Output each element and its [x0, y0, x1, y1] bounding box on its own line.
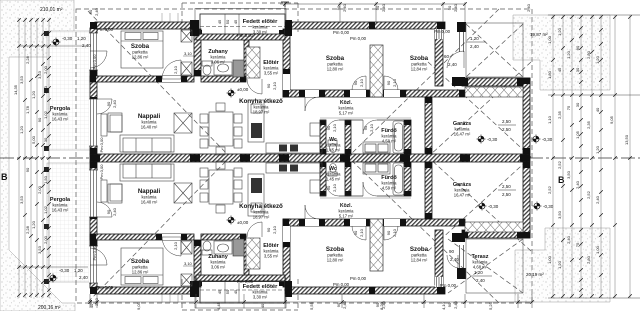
door szoba2 top unit — [352, 76, 366, 90]
svg-text:2,10: 2,10 — [272, 225, 277, 234]
bath block top wall lines — [320, 118, 411, 198]
svg-text:Pm 0,00: Pm 0,00 — [333, 282, 350, 287]
door SE entry bottom — [447, 255, 458, 268]
svg-text:1,10: 1,10 — [547, 115, 552, 124]
svg-text:2,52: 2,52 — [557, 160, 562, 169]
wall wc right wall bottom unit — [345, 162, 351, 196]
room label zuhany top unit — [208, 49, 228, 65]
svg-text:13,50: 13,50 — [624, 134, 629, 145]
armchair nappali top unit — [108, 113, 122, 132]
wall end caps — [90, 22, 530, 294]
svg-text:5,55: 5,55 — [309, 301, 314, 310]
Pm rotated window labels — [92, 54, 104, 261]
svg-text:75: 75 — [566, 105, 571, 110]
sofa nappali bottom unit — [120, 164, 174, 181]
svg-text:2,35: 2,35 — [586, 120, 591, 129]
level marker garage bottom L — [477, 201, 486, 210]
svg-text:2,28: 2,28 — [25, 55, 30, 64]
door wc bottom unit — [326, 183, 339, 196]
svg-text:45: 45 — [233, 19, 238, 24]
svg-text:90: 90 — [575, 45, 580, 50]
svg-text:Pm 0,00: Pm 0,00 — [92, 54, 97, 70]
wall szoba3 east wall top unit — [435, 31, 443, 86]
room label szoba3 top unit — [410, 55, 429, 72]
wall zuhany right wall bottom unit — [244, 240, 249, 280]
svg-text:3,30 m²: 3,30 m² — [253, 30, 268, 35]
svg-text:90: 90 — [336, 302, 341, 307]
radiator nappali top unit — [101, 114, 107, 136]
room label garazs bottom unit — [453, 182, 471, 198]
kitchen counter top unit — [248, 100, 322, 153]
svg-text:16,40 m²: 16,40 m² — [141, 200, 158, 205]
svg-text:1,20: 1,20 — [470, 36, 479, 41]
svg-text:±0,00: ±0,00 — [237, 220, 249, 225]
room label kozl bottom unit — [339, 203, 355, 219]
svg-text:18,97 m²: 18,97 m² — [253, 215, 270, 220]
door szoba1 to nappali bottom unit — [162, 237, 181, 256]
svg-text:3,10: 3,10 — [184, 51, 193, 56]
room label konyha top unit — [239, 98, 283, 115]
svg-text:3,53: 3,53 — [37, 70, 42, 79]
svg-text:2,10: 2,10 — [359, 228, 364, 237]
wall middle wall top unit — [283, 90, 465, 97]
svg-text:Pm 0,00: Pm 0,00 — [92, 245, 97, 261]
wall wc right wall top unit — [345, 120, 351, 154]
porch fedett eloter top — [195, 9, 286, 37]
wall eloter right wall bottom unit — [283, 219, 290, 287]
furdo fixtures top unit — [363, 121, 404, 153]
svg-text:Pm 0,00: Pm 0,00 — [440, 283, 457, 288]
svg-text:90: 90 — [353, 80, 358, 85]
door kozl bottom unit — [305, 205, 319, 219]
svg-text:2,10: 2,10 — [369, 123, 374, 132]
svg-text:45: 45 — [233, 289, 238, 294]
roof outline dashed — [76, 9, 532, 303]
svg-text:2,10: 2,10 — [332, 123, 337, 132]
svg-text:90: 90 — [447, 5, 452, 10]
svg-text:90: 90 — [266, 83, 271, 88]
door kozl top unit — [305, 97, 319, 111]
top dimension ticks — [283, 2, 467, 6]
svg-text:90: 90 — [386, 230, 391, 235]
room label nappali top unit — [138, 113, 161, 130]
svg-text:45: 45 — [557, 67, 562, 72]
svg-text:90: 90 — [88, 9, 93, 14]
wall szoba1 bottom wall top unit — [90, 76, 194, 82]
ground texture top-left — [0, 0, 75, 311]
furdo fixtures bottom unit — [363, 163, 404, 195]
porch fedett eloter bottom — [195, 278, 286, 308]
svg-text:Pm 0,00: Pm 0,00 — [99, 137, 104, 153]
porch piers — [190, 20, 292, 297]
svg-text:50: 50 — [225, 19, 230, 24]
svg-text:12,84 m²: 12,84 m² — [411, 67, 428, 72]
section marker B left — [1, 172, 8, 182]
party wall blocks — [90, 155, 530, 162]
svg-text:90: 90 — [266, 227, 271, 232]
svg-text:2,10: 2,10 — [332, 183, 337, 192]
svg-text:90: 90 — [25, 167, 30, 172]
room label wc top unit — [326, 137, 342, 153]
ground area label 19,87 m2 — [530, 32, 548, 37]
svg-text:12,80 m²: 12,80 m² — [327, 67, 344, 72]
svg-text:3,53: 3,53 — [19, 75, 24, 84]
dimension ticks right — [551, 15, 632, 298]
svg-text:30: 30 — [575, 67, 580, 72]
NE thin wall top — [452, 22, 466, 86]
wall eloter right wall top unit — [283, 29, 290, 97]
section marker B right — [558, 175, 565, 185]
room label eloter top unit — [263, 60, 279, 76]
svg-text:2,40: 2,40 — [526, 3, 531, 12]
wall zuhany right wall top unit — [244, 36, 249, 76]
wall middle wall bottom unit — [283, 219, 465, 226]
room label nappali bottom unit — [138, 188, 161, 205]
tv cabinet top unit — [174, 113, 192, 133]
svg-text:90: 90 — [106, 101, 111, 106]
svg-text:2,40: 2,40 — [448, 62, 457, 67]
porch step hatch bottom — [196, 275, 285, 281]
svg-text:210,01 m²: 210,01 m² — [40, 7, 63, 13]
kitchen end unit top unit — [310, 123, 320, 136]
bottom dimension ticks — [88, 300, 534, 304]
svg-text:2,40: 2,40 — [94, 7, 99, 16]
room label szoba1 top unit — [131, 43, 150, 60]
room label kozl top unit — [339, 100, 355, 116]
svg-text:Pm 0,00: Pm 0,00 — [434, 29, 451, 34]
svg-text:2,40: 2,40 — [575, 180, 580, 189]
dimension labels left — [13, 55, 48, 254]
svg-text:1,20: 1,20 — [77, 36, 86, 41]
wall furdo right wall bottom unit — [404, 162, 411, 196]
door furdo bottom unit — [363, 182, 377, 196]
svg-text:16,43 m²: 16,43 m² — [52, 208, 69, 213]
wall garage right wall top unit — [523, 78, 530, 154]
svg-text:-0,30: -0,30 — [488, 204, 499, 209]
room label fedett eloter bottom — [243, 284, 279, 300]
door furdo top unit — [363, 120, 377, 134]
svg-text:-0,30: -0,30 — [59, 268, 70, 273]
door szoba3 bottom unit — [384, 226, 398, 240]
wall top wall left bottom unit — [95, 287, 196, 294]
svg-text:Pm 0,00: Pm 0,00 — [237, 33, 254, 38]
svg-text:2,40: 2,40 — [453, 300, 458, 309]
svg-text:1,78: 1,78 — [25, 105, 30, 114]
pergola deck top — [47, 31, 91, 150]
wall szoba3 east wall bottom unit — [435, 230, 443, 285]
wc fixture bottom unit — [328, 164, 337, 177]
svg-text:1,45 m²: 1,45 m² — [326, 177, 341, 182]
room label zuhany bottom unit — [208, 254, 228, 270]
wall top wall right top unit — [285, 22, 445, 29]
svg-text:3,50: 3,50 — [557, 210, 562, 219]
garage lintel truss bottom — [465, 222, 523, 232]
wall top wall right bottom unit — [285, 287, 445, 294]
svg-text:2,40: 2,40 — [476, 278, 485, 283]
level texts kitchen — [237, 87, 249, 225]
level texts NE — [444, 36, 486, 67]
wc fixture top unit — [328, 140, 337, 153]
wall garage right wall bottom unit — [523, 162, 530, 238]
svg-text:3,53: 3,53 — [37, 245, 42, 254]
svg-text:2,40: 2,40 — [566, 235, 571, 244]
svg-text:3,06 m²: 3,06 m² — [211, 265, 226, 270]
svg-text:5,25: 5,25 — [488, 301, 493, 310]
svg-text:2,28: 2,28 — [25, 225, 30, 234]
porch roof dashed outline top — [182, 3, 298, 310]
kitchen end unit bottom unit — [310, 180, 320, 193]
svg-text:2,40: 2,40 — [595, 195, 600, 204]
svg-text:Pm 0,00: Pm 0,00 — [99, 164, 104, 180]
svg-text:1,02: 1,02 — [43, 205, 48, 214]
level texts garage — [487, 119, 554, 209]
room label szoba1 bottom unit — [131, 258, 150, 275]
dimension ticks left — [17, 18, 51, 297]
terasz slab outline — [466, 239, 523, 293]
svg-text:1,20: 1,20 — [474, 270, 483, 275]
svg-text:2,52: 2,52 — [586, 190, 591, 199]
svg-text:1,00: 1,00 — [595, 245, 600, 254]
level marker garage top R — [531, 134, 540, 143]
room label szoba3 bottom unit — [410, 246, 429, 263]
svg-text:3,10: 3,10 — [184, 261, 193, 266]
porch step hatch top — [196, 34, 285, 40]
svg-text:2,40: 2,40 — [94, 297, 99, 306]
svg-text:1,20: 1,20 — [557, 260, 562, 269]
svg-text:1,45 m²: 1,45 m² — [326, 148, 341, 153]
shaft truss szoba divider top — [370, 45, 383, 97]
svg-text:2,40: 2,40 — [450, 257, 459, 262]
pergola deck bottom — [47, 163, 91, 282]
room label terasz — [471, 254, 488, 270]
door szoba1 pergola top unit — [90, 51, 107, 68]
room label szoba2 bottom unit — [326, 246, 345, 263]
svg-text:45: 45 — [217, 19, 222, 24]
svg-text:2,50: 2,50 — [502, 119, 511, 124]
level marker garage bottom R — [532, 201, 541, 210]
svg-text:Pm 0,00: Pm 0,00 — [97, 285, 114, 290]
Pm texts top — [97, 27, 457, 290]
ground texture bottom-right — [515, 228, 610, 302]
svg-text:1,00: 1,00 — [547, 255, 552, 264]
svg-text:90: 90 — [106, 209, 111, 214]
door szoba1 to nappali top unit — [162, 60, 181, 79]
svg-text:2,50: 2,50 — [502, 184, 511, 189]
bottom dim labels — [89, 301, 493, 310]
room label pergola bottom unit — [50, 197, 71, 213]
room label fedett eloter top unit — [243, 19, 279, 35]
svg-text:90: 90 — [449, 249, 455, 254]
svg-text:2,00: 2,00 — [37, 185, 42, 194]
svg-text:1,20: 1,20 — [31, 220, 36, 229]
svg-text:2,52: 2,52 — [547, 185, 552, 194]
section tick T top — [281, 2, 289, 7]
svg-text:1,50: 1,50 — [43, 175, 48, 184]
kitchen counter bottom unit — [248, 163, 322, 216]
svg-text:1,20: 1,20 — [31, 90, 36, 99]
svg-text:16,47 m²: 16,47 m² — [454, 132, 471, 137]
svg-text:2,40: 2,40 — [453, 3, 458, 12]
svg-text:40: 40 — [595, 107, 600, 112]
svg-text:90: 90 — [363, 125, 368, 130]
svg-text:-0,30: -0,30 — [543, 204, 554, 209]
svg-text:19,87 m²: 19,87 m² — [530, 32, 548, 37]
svg-text:2,40: 2,40 — [381, 3, 386, 12]
svg-text:-0,30: -0,30 — [62, 36, 73, 41]
svg-text:3,53: 3,53 — [19, 195, 24, 204]
dimension chain left — [19, 18, 88, 298]
svg-text:2,80: 2,80 — [586, 255, 591, 264]
svg-text:2,40: 2,40 — [112, 99, 117, 108]
svg-text:Pm 0,00: Pm 0,00 — [350, 36, 367, 41]
ground area label 20,19 m2 — [526, 272, 544, 277]
svg-text:1,20: 1,20 — [595, 55, 600, 64]
svg-text:Pm 0,00: Pm 0,00 — [350, 276, 367, 281]
room label garazs top unit — [453, 121, 471, 137]
dining table bottom unit — [200, 161, 242, 213]
armchair nappali bottom unit — [108, 184, 122, 203]
windows and doors left wall — [89, 33, 98, 283]
wall garage top wall bottom unit — [462, 230, 530, 238]
wall left wall bottom unit — [90, 162, 97, 288]
svg-text:1,20: 1,20 — [19, 125, 24, 134]
top edge dims — [88, 3, 531, 24]
svg-text:2,40: 2,40 — [82, 43, 91, 48]
sofa nappali top unit — [120, 135, 174, 152]
svg-text:2,10: 2,10 — [359, 78, 364, 87]
svg-text:4,10: 4,10 — [441, 301, 446, 310]
svg-text:90: 90 — [353, 230, 358, 235]
svg-text:5,00: 5,00 — [31, 135, 36, 144]
wardrobe szoba1 bottom unit — [181, 241, 192, 286]
svg-text:1,80: 1,80 — [547, 70, 552, 79]
door szoba2 bottom unit — [352, 226, 366, 240]
level marker kitchen bottom 0,00 — [226, 215, 235, 224]
wall furdo right wall top unit — [404, 120, 411, 154]
svg-text:3,50: 3,50 — [566, 170, 571, 179]
level texts SW — [59, 268, 88, 280]
dimension labels right — [547, 27, 629, 269]
room label furdo bottom unit — [381, 175, 397, 191]
svg-text:2,80: 2,80 — [586, 50, 591, 59]
NE thin wall bottom — [452, 233, 466, 279]
interior door dims — [106, 51, 397, 266]
ground area label 210,01 m2 — [40, 7, 63, 13]
level marker NW -0,30 — [51, 37, 60, 46]
svg-text:3,55 m²: 3,55 m² — [264, 71, 279, 76]
svg-text:2,10: 2,10 — [173, 241, 178, 250]
wall szoba1 right wall top unit — [194, 29, 201, 76]
svg-text:2,10: 2,10 — [392, 228, 397, 237]
section line B-B — [0, 157, 640, 159]
svg-text:2,00: 2,00 — [43, 65, 48, 74]
level texts NW — [62, 36, 91, 48]
svg-text:12,86 m²: 12,86 m² — [132, 55, 149, 60]
svg-text:60: 60 — [444, 54, 450, 59]
svg-text:5,17 m²: 5,17 m² — [339, 214, 354, 219]
wall garage left wall top unit — [425, 97, 432, 154]
wall openings — [162, 34, 400, 281]
room label furdo top unit — [381, 128, 397, 144]
svg-text:16,40 m²: 16,40 m² — [141, 125, 158, 130]
svg-text:45: 45 — [217, 289, 222, 294]
door terrace nappali top unit — [97, 99, 112, 114]
svg-text:Pm 0,00: Pm 0,00 — [97, 27, 114, 32]
svg-text:Pm 0,00: Pm 0,00 — [237, 279, 254, 284]
svg-text:18,97 m²: 18,97 m² — [253, 110, 270, 115]
svg-text:1,20: 1,20 — [595, 145, 600, 154]
svg-text:90: 90 — [326, 185, 331, 190]
svg-text:90: 90 — [386, 80, 391, 85]
svg-text:3,30 m²: 3,30 m² — [253, 295, 268, 300]
room label pergola top unit — [50, 106, 71, 122]
svg-text:30: 30 — [43, 137, 48, 142]
wall szoba1 bottom wall bottom unit — [90, 234, 194, 240]
svg-text:16,43 m²: 16,43 m² — [52, 117, 69, 122]
svg-text:B: B — [1, 172, 8, 182]
wall garage left wall bottom unit — [425, 162, 432, 219]
wall left wall top unit — [90, 28, 97, 154]
wall szoba1 right wall bottom unit — [194, 240, 201, 287]
shaft X column kitchen bottom — [246, 238, 260, 269]
svg-text:20,19 m²: 20,19 m² — [526, 272, 544, 277]
svg-text:2,40: 2,40 — [342, 3, 347, 12]
shaft truss szoba divider bottom — [370, 219, 383, 271]
level texts SE terasz — [449, 249, 492, 283]
svg-text:±0,00: ±0,00 — [237, 87, 249, 92]
level marker garage top L — [476, 134, 485, 143]
svg-text:30: 30 — [575, 102, 580, 107]
svg-text:14,35: 14,35 — [13, 84, 18, 95]
svg-text:-0,30: -0,30 — [487, 137, 498, 142]
svg-text:4,45: 4,45 — [216, 301, 221, 310]
radiator nappali bottom unit — [101, 180, 107, 202]
pergola posts — [44, 31, 49, 284]
svg-text:1,50: 1,50 — [43, 85, 48, 94]
room label wc bottom unit — [326, 166, 342, 182]
dimension chain right — [548, 15, 640, 298]
svg-text:1,20: 1,20 — [557, 27, 562, 36]
svg-text:12,86 m²: 12,86 m² — [132, 270, 149, 275]
svg-text:50: 50 — [225, 289, 230, 294]
dining table top unit — [200, 103, 242, 155]
svg-text:9,05: 9,05 — [609, 115, 614, 124]
wardrobe szoba1 top unit — [181, 30, 192, 75]
door wc top unit — [326, 120, 339, 133]
party wall center — [90, 154, 530, 162]
wall wc left wall top unit — [320, 120, 326, 154]
door szoba1 pergola bottom unit — [90, 248, 107, 265]
garage lintel truss top — [465, 87, 523, 97]
svg-text:2,00: 2,00 — [43, 235, 48, 244]
svg-text:Pm 0,00: Pm 0,00 — [333, 30, 350, 35]
svg-text:2,10: 2,10 — [392, 78, 397, 87]
level marker kitchen top 0,00 — [226, 88, 235, 97]
svg-text:1,20: 1,20 — [566, 50, 571, 59]
svg-text:75: 75 — [575, 242, 580, 247]
svg-text:B: B — [558, 175, 565, 185]
svg-text:90: 90 — [447, 302, 452, 307]
svg-text:1,05: 1,05 — [575, 130, 580, 139]
door eloter entry bottom unit — [247, 222, 262, 237]
tv cabinet bottom unit — [174, 183, 192, 203]
svg-text:4,68 m²: 4,68 m² — [473, 265, 488, 270]
door eloter entry top unit — [247, 79, 262, 94]
svg-text:2,40: 2,40 — [112, 207, 117, 216]
NE slab outline — [466, 23, 523, 77]
extension lines above top wall — [162, 13, 178, 303]
top dimension line — [280, 2, 465, 22]
